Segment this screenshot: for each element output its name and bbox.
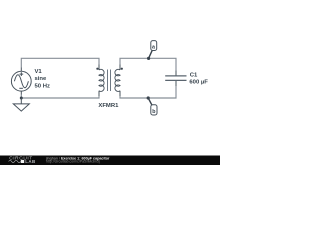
primary coil bbox=[99, 69, 104, 91]
wire secondary top bbox=[120, 58, 176, 70]
svg-text:sine: sine bbox=[35, 76, 48, 82]
core bbox=[108, 70, 111, 92]
wire secondary bottom bbox=[120, 86, 176, 98]
wire primary bottom bbox=[21, 95, 99, 99]
secondary coil bbox=[115, 69, 120, 91]
logo wave LAB bbox=[9, 160, 21, 162]
svg-text:LAB: LAB bbox=[25, 159, 36, 164]
lead secondary bottom / cap bottom bbox=[120, 80, 176, 96]
footer bar bbox=[0, 156, 220, 166]
label C1 600 uF bbox=[189, 72, 208, 85]
svg-text:a: a bbox=[152, 44, 155, 50]
voltage source V1 bbox=[11, 71, 31, 91]
lead source bottom bbox=[21, 91, 99, 97]
svg-text:C1: C1 bbox=[190, 72, 198, 78]
lead source top bbox=[21, 65, 99, 72]
svg-text:V1: V1 bbox=[35, 69, 43, 75]
wire primary top bbox=[21, 58, 99, 67]
label V1 sine 50 Hz bbox=[35, 69, 50, 90]
ground bbox=[13, 98, 29, 111]
node b bbox=[147, 96, 150, 99]
lead secondary top / cap top bbox=[120, 65, 176, 76]
capacitor C1 bbox=[165, 76, 186, 81]
junction ground node bbox=[20, 97, 23, 100]
node a bbox=[147, 57, 150, 60]
transformer XFMR1 bbox=[99, 69, 120, 91]
svg-text:50 Hz: 50 Hz bbox=[35, 84, 50, 90]
dot primary bbox=[96, 68, 98, 70]
svg-text:600 µF: 600 µF bbox=[189, 80, 208, 86]
svg-text:http://circuitlab.com/c/Pa5xwk: http://circuitlab.com/c/Pa5xwk3m5j bbox=[46, 160, 100, 164]
svg-text:XFMR1: XFMR1 bbox=[98, 103, 119, 109]
dot secondary bbox=[121, 68, 123, 70]
